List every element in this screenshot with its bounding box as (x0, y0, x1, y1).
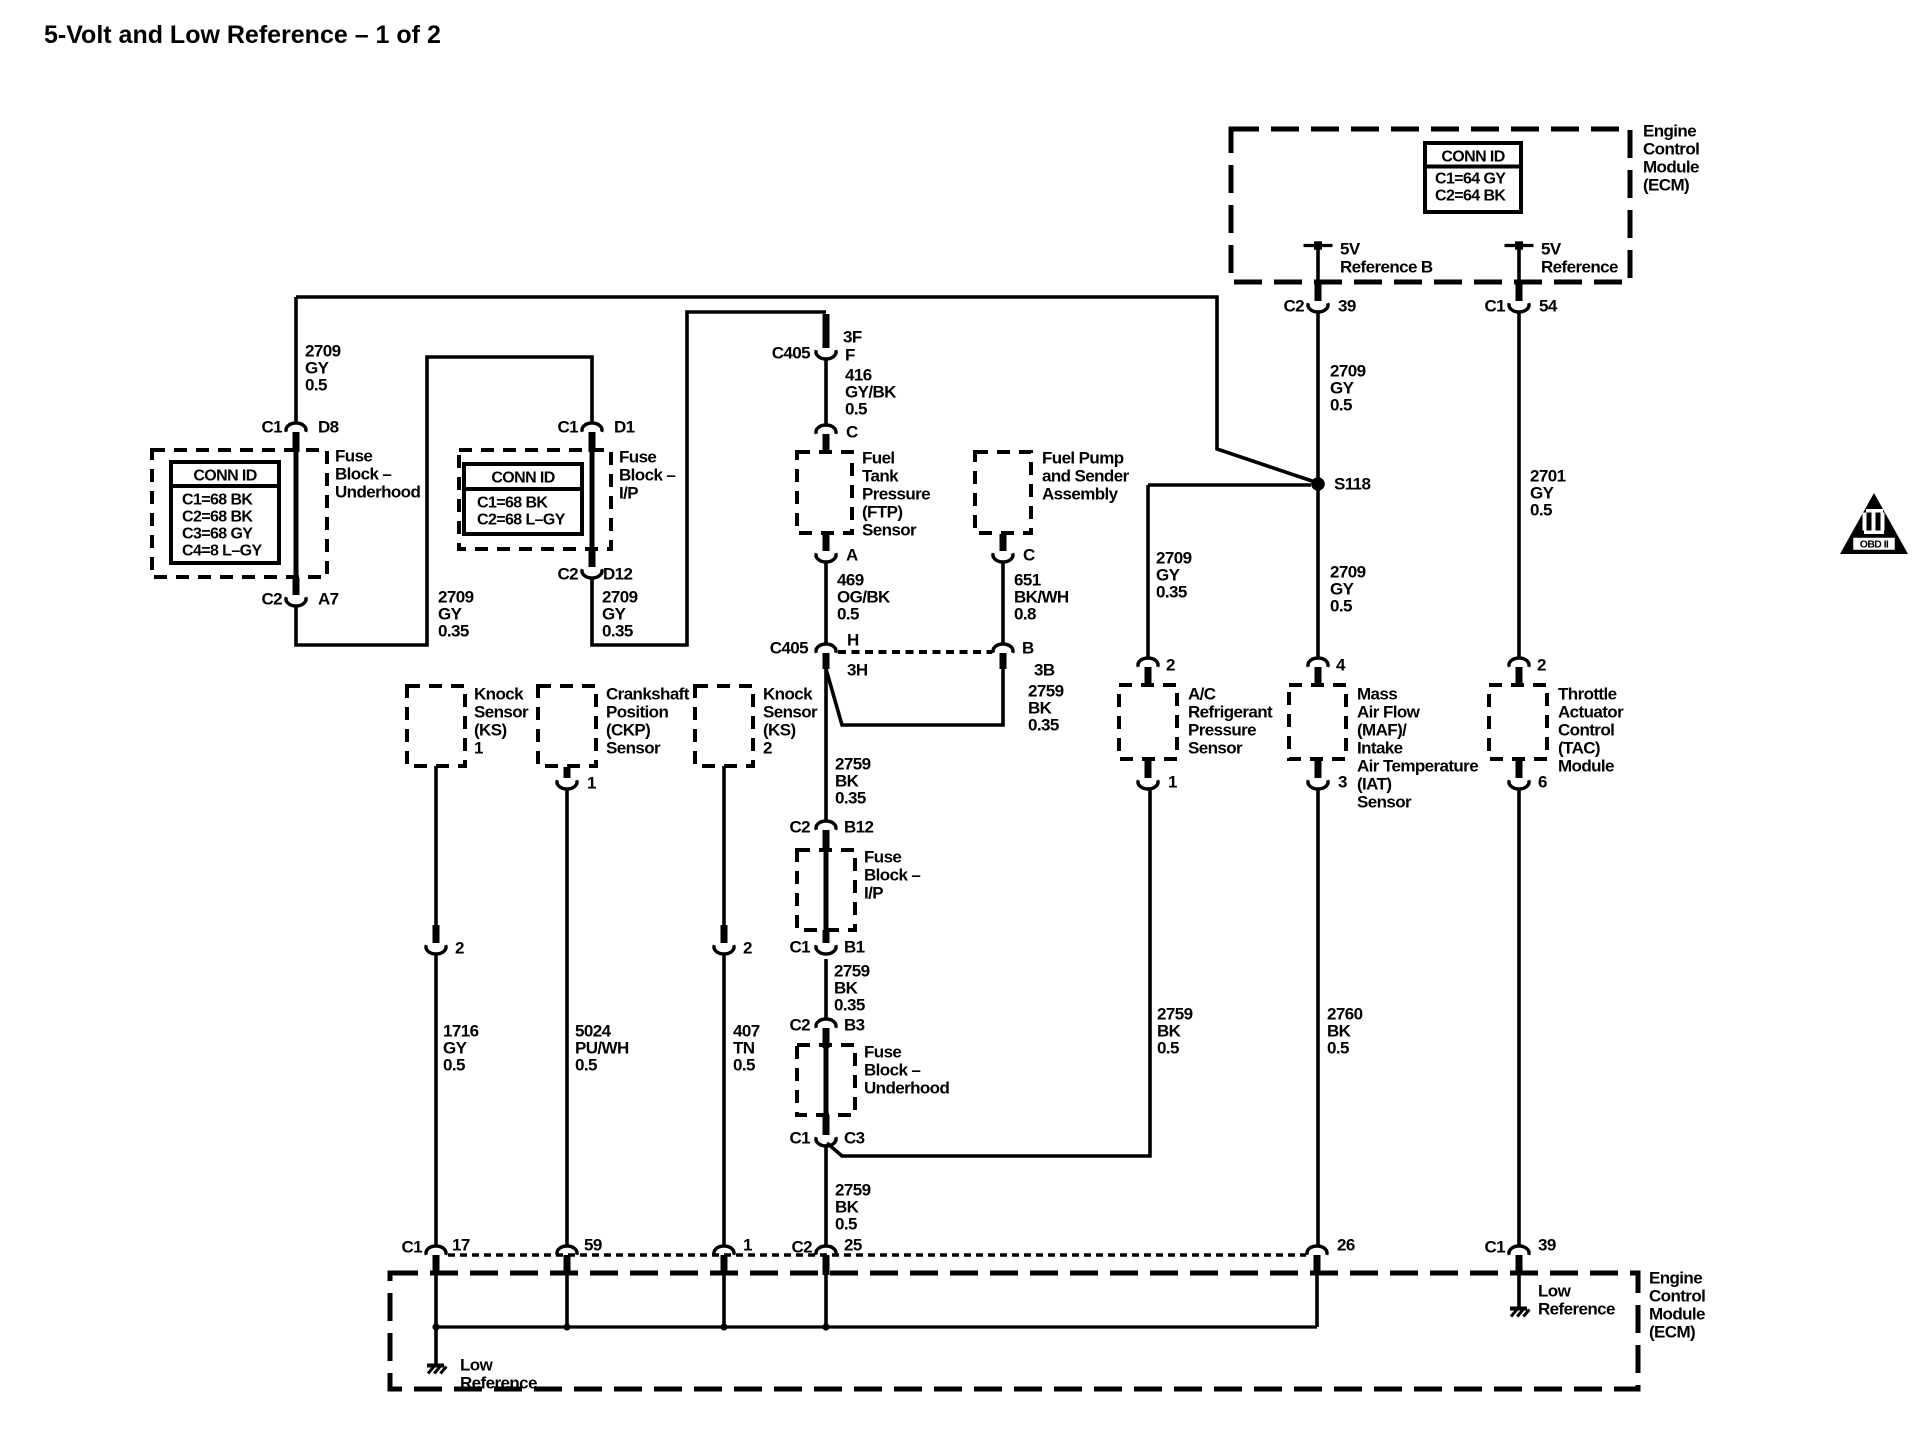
svg-text:C1: C1 (401, 1237, 422, 1256)
svg-text:1: 1 (474, 738, 483, 757)
CONN ID table IP (464, 464, 582, 534)
connector pin 26 (1307, 1246, 1327, 1275)
wire TAC to ECM 39 (1517, 790, 1521, 1245)
connector C405 pin H (816, 644, 836, 669)
svg-text:Air Temperature: Air Temperature (1357, 756, 1478, 775)
svg-text:Low: Low (460, 1355, 494, 1374)
wire B1 to B3 (824, 959, 828, 1018)
svg-text:Position: Position (606, 702, 668, 721)
svg-text:CONN ID: CONN ID (1441, 149, 1504, 166)
OBD II symbol (1840, 493, 1908, 554)
svg-text:C1: C1 (1484, 296, 1505, 315)
svg-text:Reference: Reference (1541, 257, 1618, 276)
svg-text:Actuator: Actuator (1558, 702, 1624, 721)
svg-text:Block –: Block – (619, 465, 675, 484)
svg-text:17: 17 (452, 1235, 470, 1254)
svg-text:1: 1 (743, 1235, 752, 1254)
connector pin 59 (557, 1246, 577, 1275)
svg-text:3: 3 (1338, 772, 1347, 791)
svg-text:C3=68 GY: C3=68 GY (182, 526, 253, 543)
svg-text:(ECM): (ECM) (1649, 1322, 1695, 1341)
svg-text:B: B (1022, 638, 1034, 657)
wire down to C1 D8 (294, 297, 298, 422)
wire 26 to bus (1315, 1273, 1319, 1327)
svg-text:0.5: 0.5 (305, 375, 327, 394)
wire inside IP block (590, 450, 595, 551)
svg-text:0.5: 0.5 (1327, 1038, 1349, 1057)
svg-text:(KS): (KS) (763, 720, 796, 739)
wire 17 to bus (434, 1273, 438, 1327)
svg-text:Intake: Intake (1357, 738, 1403, 757)
wire loop B to H (826, 669, 1003, 725)
svg-text:2: 2 (743, 938, 752, 957)
svg-text:Control: Control (1643, 139, 1699, 158)
connector C2 B12 (816, 821, 836, 850)
svg-text:C1: C1 (789, 1128, 810, 1147)
svg-text:0.35: 0.35 (834, 995, 865, 1014)
connector pin 1 (714, 1246, 734, 1275)
svg-text:CONN ID: CONN ID (491, 470, 554, 487)
splice S118 (1311, 477, 1325, 491)
svg-text:C2=68 L–GY: C2=68 L–GY (477, 512, 566, 529)
svg-text:Low: Low (1538, 1281, 1572, 1300)
wire S118 down to MAF (1316, 490, 1320, 657)
svg-text:D1: D1 (614, 417, 635, 436)
svg-text:Module: Module (1643, 157, 1699, 176)
svg-text:C405: C405 (770, 638, 808, 657)
svg-text:0.35: 0.35 (602, 621, 633, 640)
svg-text:B12: B12 (844, 817, 874, 836)
svg-text:Assembly: Assembly (1042, 484, 1119, 503)
Fuse Block Underhood box (152, 450, 327, 577)
svg-text:0.35: 0.35 (438, 621, 469, 640)
svg-text:Sensor: Sensor (1357, 792, 1412, 811)
svg-text:Engine: Engine (1643, 121, 1696, 140)
svg-text:C1=68 BK: C1=68 BK (182, 492, 253, 509)
svg-text:H: H (847, 630, 859, 649)
svg-text:C1: C1 (1484, 1237, 1505, 1256)
wire 1 to bus (722, 1273, 726, 1327)
svg-text:Reference: Reference (1538, 1299, 1615, 1318)
svg-text:6: 6 (1538, 772, 1547, 791)
svg-text:C2: C2 (261, 589, 282, 608)
svg-text:Crankshaft: Crankshaft (606, 684, 690, 703)
Crankshaft Position Sensor box (538, 686, 596, 766)
AC Refrigerant Pressure Sensor box (1119, 685, 1177, 759)
connector C1 D8 (286, 423, 306, 452)
wire C3 loop right (827, 790, 1150, 1156)
MAF IAT Sensor box (1289, 685, 1346, 759)
svg-text:Fuse: Fuse (335, 446, 372, 465)
svg-text:0.5: 0.5 (835, 1214, 857, 1233)
svg-text:Mass: Mass (1357, 684, 1397, 703)
svg-text:0.8: 0.8 (1014, 604, 1036, 623)
connector KS2 pin 2 (714, 925, 734, 954)
svg-text:I/P: I/P (619, 483, 638, 502)
connector C2 pin 25 (816, 1246, 836, 1275)
svg-text:0.5: 0.5 (1330, 395, 1352, 414)
wire H down to B12 (824, 669, 828, 820)
5V Reference B pin (1304, 241, 1333, 249)
svg-text:Fuse: Fuse (864, 1042, 901, 1061)
wire pump C to C405 B (1001, 563, 1005, 643)
svg-text:C1: C1 (261, 417, 282, 436)
svg-text:C2: C2 (791, 1237, 812, 1256)
connector C1 pin 39 (1509, 1246, 1529, 1275)
svg-text:(FTP): (FTP) (862, 502, 902, 521)
svg-text:C1: C1 (789, 937, 810, 956)
svg-text:F: F (845, 345, 855, 364)
low reference bus (436, 1325, 1317, 1328)
Knock Sensor 1 box (407, 686, 465, 766)
svg-text:0.5: 0.5 (733, 1055, 755, 1074)
svg-text:Engine: Engine (1649, 1268, 1702, 1287)
svg-text:C4=8 L–GY: C4=8 L–GY (182, 543, 262, 560)
wire D12 to C405 F (592, 312, 826, 645)
svg-text:D8: D8 (318, 417, 339, 436)
svg-text:Control: Control (1649, 1286, 1705, 1305)
wire KS2 down (722, 766, 726, 927)
wire C3 down (824, 1147, 828, 1245)
junction at 17 (432, 1323, 439, 1330)
connector Fuel Pump pin C (993, 534, 1013, 562)
svg-text:(CKP): (CKP) (606, 720, 650, 739)
svg-text:5-Volt and Low Reference – 1 o: 5-Volt and Low Reference – 1 of 2 (44, 21, 441, 49)
Fuse Block Underhood box 2 (797, 1045, 855, 1115)
svg-text:A/C: A/C (1188, 684, 1216, 703)
junction at 25 (822, 1323, 829, 1330)
svg-text:Knock: Knock (474, 684, 524, 703)
svg-text:0.5: 0.5 (837, 604, 859, 623)
svg-text:0.5: 0.5 (575, 1055, 597, 1074)
connector MAF pin 4 (1308, 658, 1328, 687)
svg-text:26: 26 (1337, 1235, 1355, 1254)
svg-text:C: C (846, 422, 858, 441)
svg-text:Sensor: Sensor (606, 738, 661, 757)
Fuse Block IP box 2 (797, 850, 855, 930)
svg-text:0.35: 0.35 (1028, 715, 1059, 734)
svg-text:A7: A7 (318, 589, 339, 608)
svg-text:(IAT): (IAT) (1357, 774, 1391, 793)
Fuel Tank Pressure Sensor box (797, 452, 852, 533)
svg-text:Fuel Pump: Fuel Pump (1042, 448, 1124, 467)
junction at 59 (563, 1323, 570, 1330)
svg-text:C1=64 GY: C1=64 GY (1435, 171, 1506, 188)
svg-text:Refrigerant: Refrigerant (1188, 702, 1273, 721)
junction at 1 (720, 1323, 727, 1330)
svg-text:(KS): (KS) (474, 720, 507, 739)
svg-text:(MAF)/: (MAF)/ (1357, 720, 1407, 739)
svg-text:0.5: 0.5 (1530, 500, 1552, 519)
svg-text:Sensor: Sensor (862, 520, 917, 539)
svg-text:Air Flow: Air Flow (1357, 702, 1421, 721)
wire KS1 to ECM 17 (434, 955, 438, 1245)
wire inside Underhood block (294, 450, 299, 578)
svg-text:C2: C2 (1283, 296, 1304, 315)
svg-text:Pressure: Pressure (1188, 720, 1256, 739)
svg-text:Module: Module (1558, 756, 1614, 775)
svg-text:OBD II: OBD II (1860, 539, 1889, 551)
svg-text:Fuse: Fuse (864, 847, 901, 866)
connector TAC pin 2 (1509, 658, 1529, 687)
connector AC pin 1 (1138, 759, 1158, 789)
wire 59 to bus (565, 1273, 569, 1327)
wire S118 branch down to AC (1146, 485, 1150, 657)
ECM bottom box (Engine Control Module) (390, 1273, 1638, 1389)
Throttle Actuator Control Module box (1489, 685, 1547, 759)
ECM top box (Engine Control Module) (1231, 129, 1630, 282)
svg-text:Control: Control (1558, 720, 1614, 739)
ground Low Reference right (1510, 1309, 1529, 1317)
svg-text:I/P: I/P (864, 883, 883, 902)
svg-text:Knock: Knock (763, 684, 813, 703)
svg-text:Pressure: Pressure (862, 484, 930, 503)
svg-text:C1: C1 (557, 417, 578, 436)
svg-text:2: 2 (455, 938, 464, 957)
connector C1 C3 (816, 1115, 836, 1146)
svg-text:3B: 3B (1034, 660, 1055, 679)
svg-text:4: 4 (1336, 655, 1346, 674)
connector C2 pin 39 (1308, 284, 1328, 312)
svg-text:C: C (1023, 545, 1035, 564)
svg-text:0.5: 0.5 (845, 399, 867, 418)
svg-text:Block –: Block – (864, 1060, 920, 1079)
svg-text:Sensor: Sensor (1188, 738, 1243, 757)
svg-text:Underhood: Underhood (864, 1078, 949, 1097)
wire F to FTP C (824, 360, 828, 424)
connector MAF pin 3 (1308, 759, 1328, 789)
5V Reference pin (1505, 241, 1534, 249)
wire CKP to ECM 59 (565, 790, 569, 1245)
connector C1 D1 (582, 423, 602, 452)
svg-text:Underhood: Underhood (335, 482, 420, 501)
svg-text:C3: C3 (844, 1128, 865, 1147)
connector C2 A7 (286, 578, 306, 606)
wire inside Underhood block 2 (824, 1046, 829, 1116)
svg-text:0.35: 0.35 (1156, 582, 1187, 601)
wire KS1 down (434, 766, 438, 927)
connector FTP pin C (816, 425, 836, 454)
svg-text:Block –: Block – (864, 865, 920, 884)
svg-text:Module: Module (1649, 1304, 1705, 1323)
svg-text:(ECM): (ECM) (1643, 175, 1689, 194)
wire 25 to bus (824, 1273, 828, 1327)
svg-text:Sensor: Sensor (763, 702, 818, 721)
svg-text:C2=64 BK: C2=64 BK (1435, 188, 1506, 205)
svg-text:C2: C2 (789, 817, 810, 836)
wire A7 to D1 (296, 357, 592, 645)
svg-text:2: 2 (1537, 655, 1546, 674)
connector C1 pin 54 (1509, 284, 1529, 312)
svg-text:(TAC): (TAC) (1558, 738, 1600, 757)
svg-text:0.5: 0.5 (1157, 1038, 1179, 1057)
svg-text:Sensor: Sensor (474, 702, 529, 721)
connector KS1 pin 2 (426, 925, 446, 954)
svg-text:C2=68 BK: C2=68 BK (182, 509, 253, 526)
svg-text:5V: 5V (1541, 239, 1562, 258)
svg-text:Tank: Tank (862, 466, 899, 485)
svg-text:Reference: Reference (460, 1373, 537, 1392)
wire 39 to S118 (1316, 313, 1320, 478)
svg-text:Throttle: Throttle (1558, 684, 1617, 703)
svg-text:Fuse: Fuse (619, 447, 656, 466)
svg-text:0.5: 0.5 (1330, 596, 1352, 615)
svg-text:1: 1 (587, 773, 596, 792)
connector FTP pin A (816, 534, 836, 562)
svg-text:C1=68 BK: C1=68 BK (477, 495, 548, 512)
CONN ID table Underhood (171, 462, 279, 563)
connector C405 pin B (993, 644, 1013, 669)
connector C405 pin F (816, 314, 836, 359)
dashed tie bottom connector row (448, 1253, 1306, 1256)
Knock Sensor 2 box (695, 686, 753, 766)
svg-text:Block –: Block – (335, 464, 391, 483)
wire 5V Reference to edge (1517, 245, 1521, 284)
svg-text:A: A (846, 545, 858, 564)
connector CKP pin 1 (557, 767, 577, 789)
svg-text:5V: 5V (1340, 239, 1361, 258)
svg-text:Fuel: Fuel (862, 448, 895, 467)
connector C2 D12 (582, 550, 602, 578)
svg-text:C2: C2 (557, 564, 578, 583)
Fuel Pump and Sender Assembly box (975, 452, 1031, 533)
svg-text:CONN ID: CONN ID (193, 468, 256, 485)
svg-text:39: 39 (1338, 296, 1356, 315)
svg-text:2: 2 (763, 738, 772, 757)
ground Low Reference left (427, 1366, 446, 1374)
svg-text:2: 2 (1166, 655, 1175, 674)
svg-text:and Sender: and Sender (1042, 466, 1130, 485)
svg-text:S118: S118 (1334, 474, 1371, 493)
svg-text:D12: D12 (603, 564, 633, 583)
connector C1 B1 (816, 930, 836, 954)
wire 39 to ground (1517, 1273, 1521, 1307)
svg-text:3F: 3F (843, 327, 862, 346)
wire 54 down to TAC (1517, 313, 1521, 657)
connector AC pin 2 (1138, 658, 1158, 687)
svg-text:C405: C405 (772, 343, 810, 362)
svg-text:0.35: 0.35 (835, 788, 866, 807)
wire 5V Reference B to edge (1316, 245, 1320, 284)
wire KS2 to ECM 1 (722, 955, 726, 1245)
dashed tie C405 H-B (838, 650, 992, 654)
svg-text:Reference B: Reference B (1340, 257, 1433, 276)
Fuse Block IP box (459, 450, 611, 549)
wire A to C405 H (824, 563, 828, 643)
svg-text:B3: B3 (844, 1015, 865, 1034)
svg-text:59: 59 (584, 1235, 602, 1254)
svg-text:C2: C2 (789, 1015, 810, 1034)
wire bus to ground (434, 1327, 438, 1364)
CONN ID table ECM (1425, 143, 1521, 212)
wire inside IP block 2 (824, 848, 829, 930)
svg-text:3H: 3H (847, 660, 868, 679)
svg-text:39: 39 (1538, 1235, 1556, 1254)
svg-text:54: 54 (1539, 296, 1558, 315)
wire S118 left branch (1148, 483, 1311, 487)
svg-text:25: 25 (844, 1235, 862, 1254)
svg-text:0.5: 0.5 (443, 1055, 465, 1074)
svg-text:B1: B1 (844, 937, 865, 956)
wire MAF to ECM 26 (1316, 790, 1320, 1245)
connector C1 pin 17 (426, 1246, 446, 1275)
wire 2709 GY top run (296, 297, 1318, 483)
connector TAC pin 6 (1509, 759, 1529, 789)
connector C2 B3 (816, 1019, 836, 1048)
svg-text:1: 1 (1168, 772, 1177, 791)
